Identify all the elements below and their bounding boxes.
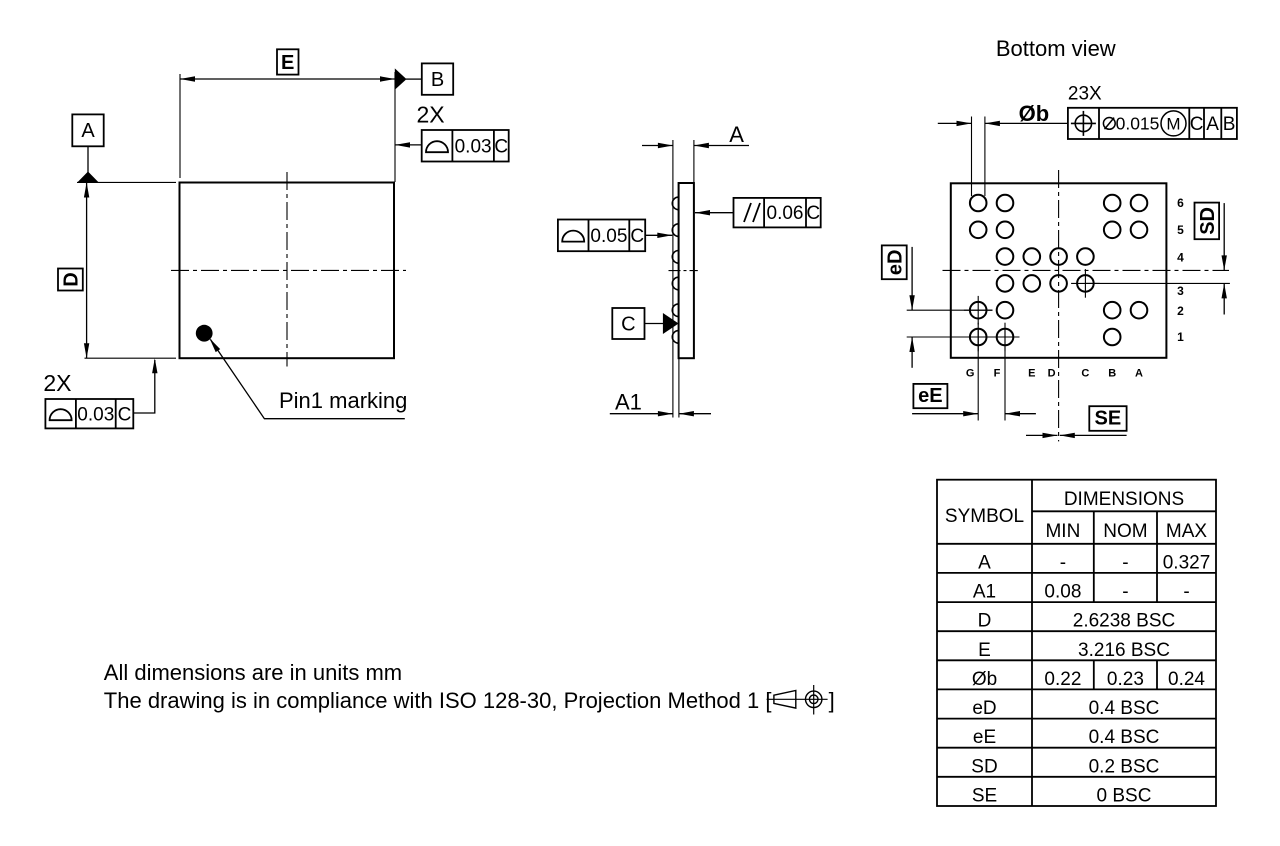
svg-text:6: 6 [1177,196,1184,210]
SD reference line from ball C3 [1085,282,1230,284]
surface profile tolerance frame side view [558,220,645,252]
svg-text:E: E [1028,368,1035,380]
ball F5 [997,222,1014,239]
svg-text:C: C [806,203,820,224]
datum C symbol [645,323,664,325]
svg-text:C: C [630,226,644,247]
ball F1 [997,329,1014,346]
svg-text:G: G [966,368,975,380]
svg-text:0.2 BSC: 0.2 BSC [1089,756,1160,777]
position tolerance value [1103,118,1115,130]
ball F4 [997,248,1014,265]
svg-text:Øb: Øb [1019,101,1050,126]
svg-text:-: - [1183,581,1189,602]
bottom view vertical centerline [1058,170,1060,441]
profile tolerance frame top right [422,130,509,162]
svg-text:The drawing is in compliance w: The drawing is in compliance with ISO 12… [104,688,772,713]
dimension SE label box [1089,406,1126,431]
bottom view package outline [951,183,1167,357]
svg-text:All dimensions are in units mm: All dimensions are in units mm [104,660,402,685]
dimension A1 line with arrows [610,413,673,415]
dimension D label box [58,269,83,291]
ball F6 [997,195,1014,212]
svg-text:0.327: 0.327 [1163,552,1211,573]
material condition modifier M [1161,111,1186,136]
eD reference line row 2 [907,309,993,311]
ball B5 [1104,222,1121,239]
svg-text:E: E [281,52,294,74]
position symbol [1075,115,1091,131]
svg-text:SE: SE [972,785,997,806]
ball C4 [1077,248,1094,265]
svg-text:A1: A1 [973,581,996,602]
svg-text:SYMBOL: SYMBOL [945,506,1024,527]
svg-text:5: 5 [1177,223,1184,237]
svg-text:0.03: 0.03 [77,405,114,426]
ball C3 [1077,275,1094,292]
svg-text:C: C [118,405,132,426]
dimension A line with arrows [642,145,673,147]
dimension E line with arrows [180,78,395,80]
dimension D line with arrows [86,183,88,359]
svg-text:-: - [1122,581,1128,602]
side view package body [679,183,694,358]
svg-text:F: F [994,368,1001,380]
svg-text:A1: A1 [615,390,642,415]
svg-text:0.24: 0.24 [1168,669,1205,690]
svg-text:DIMENSIONS: DIMENSIONS [1064,489,1184,510]
datum A extension line [77,181,176,183]
svg-text:0.23: 0.23 [1107,669,1144,690]
ball E4 [1024,248,1041,265]
ball B2 [1104,302,1121,319]
dimension eD label box [882,245,907,279]
svg-text:A: A [81,120,95,142]
ball B1 [1104,329,1121,346]
svg-text:MIN: MIN [1045,521,1080,542]
ball A5 [1131,222,1148,239]
dimension table [937,480,1216,806]
svg-text:0.4 BSC: 0.4 BSC [1089,698,1160,719]
svg-text:4: 4 [1177,251,1184,265]
diameter b dimension line [938,122,972,124]
top view horizontal centerline [171,269,406,271]
bottom extension line of top view [85,357,177,359]
dimension E extension line left [179,74,181,178]
ball D4 [1050,248,1067,265]
svg-text:2: 2 [1177,304,1184,318]
dimension eD line with arrows [911,247,913,310]
svg-text:3.216 BSC: 3.216 BSC [1078,640,1170,661]
projection symbol axis line [767,698,828,700]
ball G5 [970,222,987,239]
svg-text:0.08: 0.08 [1044,581,1081,602]
svg-text:2.6238 BSC: 2.6238 BSC [1073,611,1175,632]
leader arrow from parallelism frame [695,212,734,214]
svg-text:C: C [494,137,508,158]
datum A label box [72,114,103,146]
side view solder balls [672,197,678,210]
svg-text:eE: eE [918,385,942,407]
dimension eE label box [913,384,947,408]
column G extension line [977,330,979,421]
svg-text:B: B [1223,114,1236,135]
dimension SD label box [1195,203,1220,240]
diameter b tangent lines [971,117,973,197]
svg-text:Pin1 marking: Pin1 marking [279,388,407,413]
leader arrow from profile frame to right edge [395,144,422,146]
ball A6 [1131,195,1148,212]
ball G6 [970,195,987,212]
svg-text:0.22: 0.22 [1044,669,1081,690]
svg-text:0.06: 0.06 [767,203,804,224]
ball G2 [970,302,987,319]
svg-text:Øb: Øb [972,669,997,690]
profile tolerance frame bottom left [45,399,133,428]
eD reference line row 1 [907,336,1020,338]
dimension E label box [277,49,299,74]
ball B6 [1104,195,1121,212]
svg-text:M: M [1166,115,1180,134]
ball G1 [970,329,987,346]
svg-text:A: A [1135,368,1143,380]
svg-text:23X: 23X [1068,84,1102,105]
svg-text:D: D [978,611,992,632]
svg-text:eD: eD [884,250,906,276]
side view top right extension line [693,140,695,183]
svg-text:-: - [1060,552,1066,573]
ball A2 [1131,302,1148,319]
svg-text:C: C [1081,368,1089,380]
dimension SD line with arrows [1223,203,1225,270]
svg-text:0.05: 0.05 [590,226,627,247]
datum C label box [612,308,644,339]
svg-text:A: A [729,122,744,147]
datum B label box [422,63,453,94]
svg-text:0 BSC: 0 BSC [1097,785,1152,806]
svg-text:SD: SD [971,756,997,777]
top view vertical centerline [286,172,288,367]
ball E3 [1024,275,1041,292]
seating plane line [672,140,674,418]
svg-text:A: A [1206,114,1219,135]
svg-text:C: C [1190,114,1204,135]
column F extension line [1004,330,1006,421]
projection method symbol cone [774,691,796,709]
dimension eE line with arrows [912,413,978,415]
ball F3 [997,275,1014,292]
pin1 marking leader [211,340,405,419]
position tolerance frame [1068,108,1237,139]
svg-text:eE: eE [973,727,996,748]
svg-text:C: C [621,314,635,336]
dimension A1 extension lines [678,358,680,417]
side view centerline [669,270,698,272]
svg-text:]: ] [829,688,835,713]
svg-text:SD: SD [1197,207,1219,235]
bottom view horizontal centerline [943,269,1230,271]
svg-text:0.4 BSC: 0.4 BSC [1089,727,1160,748]
svg-text:Bottom view: Bottom view [996,36,1116,61]
datum B symbol [395,68,407,89]
leader from bottom left frame to bottom edge [133,360,155,413]
svg-text:-: - [1122,552,1128,573]
parallelism tolerance frame [734,198,821,228]
svg-text:A: A [978,552,991,573]
dimension E extension line right / datum B extension [394,72,396,182]
dimension SE line with arrows [1026,434,1058,436]
svg-text:MAX: MAX [1166,521,1208,542]
svg-text:SE: SE [1095,408,1122,430]
datum A symbol [87,146,89,172]
svg-text:NOM: NOM [1103,521,1147,542]
ball D3 [1050,275,1067,292]
top view package body outline [180,183,395,359]
svg-text:2X: 2X [43,370,71,396]
leader arrow from surface profile frame [645,234,672,236]
svg-text:3: 3 [1177,284,1184,298]
pin1 marking dot [196,325,213,342]
svg-text:E: E [978,640,991,661]
svg-text:D: D [61,272,83,286]
svg-text:D: D [1048,368,1056,380]
svg-text:eD: eD [972,698,996,719]
svg-text:0.03: 0.03 [455,137,492,158]
svg-text:B: B [431,69,444,91]
svg-text:0.015: 0.015 [1116,114,1160,134]
svg-text:2X: 2X [417,102,445,128]
svg-text:1: 1 [1177,330,1184,344]
ball F2 [997,302,1014,319]
projection symbol circles [806,691,822,707]
svg-text:B: B [1108,368,1116,380]
